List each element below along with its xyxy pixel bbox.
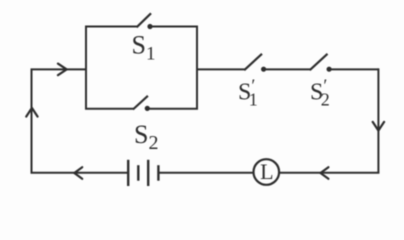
switch S1 (open, lever up-right with contact dot) bbox=[137, 13, 153, 29]
wire from lamp to battery bbox=[159, 172, 253, 174]
wire parallel box left side bbox=[85, 27, 87, 109]
svg-text:S2: S2 bbox=[134, 120, 158, 154]
current arrow left on bottom right segment bbox=[321, 167, 329, 179]
current arrow right on feed wire bbox=[58, 64, 67, 76]
battery (two cells: long-short-long-short plates) bbox=[128, 160, 158, 186]
svg-text:S′1: S′1 bbox=[238, 76, 258, 110]
switch S'2 (open, lever up-right with contact dot) bbox=[310, 54, 332, 72]
wire bottom branch right segment bbox=[149, 108, 198, 110]
switch S2 (open, lever up-right with contact dot) bbox=[133, 96, 150, 111]
wire from box to switch S'1 bbox=[197, 68, 245, 70]
wire bottom branch left segment bbox=[85, 108, 134, 110]
current arrow up on left rail bbox=[26, 108, 37, 117]
current arrow left on bottom left segment bbox=[74, 167, 82, 179]
wire parallel box right side bbox=[196, 27, 198, 109]
wire right rail vertical bbox=[377, 68, 379, 172]
svg-text:S1: S1 bbox=[132, 31, 156, 65]
wire left rail vertical bbox=[31, 69, 33, 172]
wire from S'2 to right rail bbox=[331, 68, 378, 70]
svg-text:L: L bbox=[260, 159, 273, 184]
wire from battery to left rail bbox=[31, 172, 128, 174]
wire top branch left segment bbox=[85, 26, 137, 28]
lamp L (circle with letter L) bbox=[253, 159, 279, 185]
switch S'1 (open, lever up-right with contact dot) bbox=[244, 54, 266, 72]
wire between S'1 and S'2 bbox=[266, 68, 311, 70]
svg-text:S′2: S′2 bbox=[310, 76, 330, 110]
wire bottom from right rail to lamp bbox=[280, 172, 379, 174]
wire top branch right segment bbox=[152, 26, 199, 28]
current arrow down on right rail bbox=[373, 122, 384, 131]
wire feed from left rail to parallel box bbox=[31, 68, 87, 70]
